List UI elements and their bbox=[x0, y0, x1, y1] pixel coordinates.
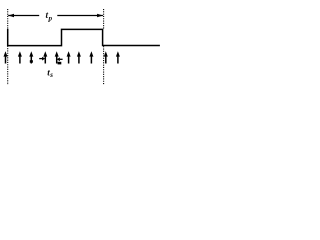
sample arrow 2 bbox=[18, 51, 22, 63]
svg-text:ts: ts bbox=[47, 69, 53, 80]
sample arrow 7 bbox=[77, 51, 81, 63]
tp dimension arrow left segment bbox=[8, 15, 39, 17]
sample arrow 6 bbox=[67, 51, 71, 63]
tp dimension arrow right segment bbox=[57, 15, 103, 17]
sample arrow 9 bbox=[104, 51, 108, 63]
dotted reference line right bbox=[103, 9, 105, 29]
dotted reference line left bbox=[7, 9, 9, 85]
tp arrowhead right bbox=[97, 14, 103, 17]
ts dimension arrow left (points right at arrow 4) bbox=[39, 57, 45, 61]
tp arrowhead left bbox=[8, 14, 14, 17]
tick at arrow 3 base bbox=[30, 60, 33, 63]
small blob right of ts right arrow tail bbox=[58, 62, 62, 65]
sample arrow 10 bbox=[116, 51, 120, 63]
pulse waveform bbox=[8, 29, 160, 46]
ts dimension arrow right (points left at arrow 5) bbox=[57, 57, 63, 61]
sample arrow 8 bbox=[89, 51, 93, 63]
dotted reference line right lower part bbox=[103, 46, 105, 85]
sample arrow 1 bbox=[4, 51, 8, 63]
background bbox=[0, 0, 160, 90]
sample arrow 3 bbox=[29, 51, 33, 63]
sample arrow 4 bbox=[43, 51, 47, 63]
sample arrow 5 bbox=[55, 51, 59, 63]
